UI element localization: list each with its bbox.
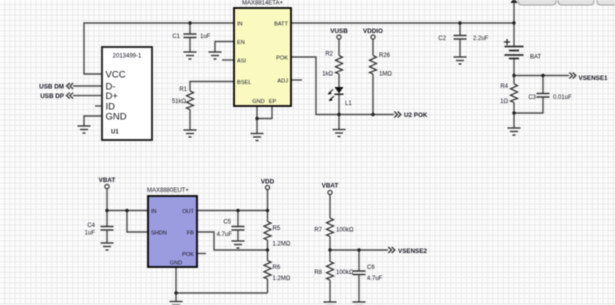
svg-text:U1: U1 [111, 130, 119, 136]
wire battery top [513, 2, 515, 47]
svg-text:C3: C3 [528, 95, 536, 101]
wire R8 leads [329, 250, 331, 262]
ground below C1 [184, 52, 197, 59]
svg-text:C4: C4 [87, 223, 95, 229]
wire U3 POK stub [197, 253, 206, 255]
svg-text:VDD: VDD [261, 179, 275, 186]
wire GND of U1 to ground [84, 116, 102, 126]
svg-text:R26: R26 [379, 53, 391, 59]
junction SHDN branch [125, 209, 128, 212]
wire FB branch [197, 232, 268, 250]
svg-text:R8: R8 [314, 270, 322, 276]
svg-text:1.2MΩ: 1.2MΩ [273, 242, 291, 248]
svg-text:GND: GND [106, 112, 127, 123]
resistor R6 [264, 261, 291, 283]
svg-text:IN: IN [237, 22, 243, 28]
resistor R1 [172, 87, 194, 110]
wire EN to ground [215, 42, 234, 53]
junction C6 tap on VSENSE2 node [357, 248, 360, 251]
wire USB DM to D- [73, 85, 102, 87]
svg-text:EN: EN [237, 40, 245, 46]
wire OUT rail [197, 210, 268, 212]
wire R5 leads [267, 211, 269, 222]
capacitor C2 [438, 36, 488, 43]
junction LED bottom on POK net [337, 113, 340, 116]
wire VBAT to U3 IN [107, 189, 148, 211]
svg-text:1uF: 1uF [200, 34, 211, 40]
wire LED node to ground [338, 115, 340, 130]
svg-text:2.2uF: 2.2uF [473, 36, 489, 42]
svg-text:R7: R7 [314, 228, 322, 234]
junction U3 GND net [174, 291, 177, 294]
svg-text:R4: R4 [500, 84, 508, 90]
regulator U3 MAX8880EUT+ [147, 188, 197, 267]
svg-text:100kΩ: 100kΩ [336, 270, 354, 276]
wire SHDN branch [127, 211, 148, 233]
node U2 POK off-page arrow [394, 112, 428, 120]
resistor R26 [370, 53, 393, 78]
power flag VBAT (regulator input) [99, 177, 116, 189]
resistor R5 [264, 222, 291, 248]
svg-text:VSENSE2: VSENSE2 [398, 248, 428, 255]
junction VSENSE2 node R7/R8 [328, 248, 331, 251]
junction C2 tap on BATT rail [458, 21, 461, 24]
resistor R8 [314, 262, 354, 281]
svg-text:SHDN: SHDN [151, 231, 167, 237]
wire C4 leads [106, 211, 108, 227]
svg-text:1.2MΩ: 1.2MΩ [273, 276, 291, 282]
wire R2 to LED [338, 74, 340, 87]
svg-text:L1: L1 [345, 101, 352, 107]
svg-text:MAX8814ETA+: MAX8814ETA+ [242, 1, 284, 7]
svg-text:USB DM: USB DM [39, 84, 64, 91]
svg-text:C2: C2 [438, 36, 446, 42]
ground below C6 [353, 302, 366, 305]
svg-text:1uF: 1uF [85, 231, 96, 237]
resistor R7 [314, 218, 354, 237]
wire R6 leads [267, 250, 269, 261]
junction FB node R5/R6 [266, 248, 269, 251]
svg-text:ASI: ASI [237, 59, 246, 65]
junction VSENSE1 node at battery [512, 74, 515, 77]
ground below LED L1 [333, 130, 346, 137]
ground below R8 [324, 302, 337, 305]
svg-text:C6: C6 [367, 265, 375, 271]
op-amp / charger IC U2 MAX8814ETA+ [234, 1, 291, 107]
USB DM off-page connector [39, 83, 73, 91]
wire R26 to POK net [372, 74, 374, 115]
svg-text:POK: POK [276, 56, 288, 62]
wire battery bottom to VSENSE1 node [514, 59, 569, 76]
svg-text:4.7uF: 4.7uF [217, 232, 233, 238]
wire R4 leads [513, 76, 515, 85]
svg-text:MAX8880EUT+: MAX8880EUT+ [147, 188, 189, 194]
svg-text:VUSB: VUSB [330, 28, 348, 35]
UI tab button 3 [597, 0, 615, 5]
resistor R2 [322, 52, 342, 78]
svg-text:4.7uF: 4.7uF [367, 276, 383, 282]
node VSENSE1 off-page arrow [569, 73, 608, 83]
ground below C2 [454, 57, 467, 64]
wire USB DP to D+ [73, 95, 102, 97]
junction VDD on OUT rail [266, 209, 269, 212]
wire VCC to top rail [84, 23, 234, 74]
svg-text:51kΩ: 51kΩ [172, 99, 187, 105]
capacitor C5 [217, 220, 245, 239]
junction C3 tap on VSENSE1 node [541, 74, 544, 77]
UI tab button 1 (top right, cut off) [518, 0, 556, 5]
junction U2 GND/EP [255, 117, 258, 120]
ground below C4 [101, 243, 114, 250]
svg-text:ADJ: ADJ [277, 79, 288, 85]
wire R7 to VSENSE2 node [330, 237, 388, 251]
svg-text:VCC: VCC [106, 70, 126, 81]
wire C2 leads [459, 23, 461, 36]
wire ASI stub [222, 59, 234, 61]
svg-text:R5: R5 [273, 226, 281, 232]
wire C1 leads [189, 23, 191, 34]
connector U1 (2013499-1) [102, 47, 152, 140]
capacitor C3 [528, 94, 572, 102]
svg-text:1kΩ: 1kΩ [322, 72, 333, 78]
svg-text:1MΩ: 1MΩ [379, 72, 392, 78]
junction battery top on BATT rail [512, 21, 515, 24]
ground below R4/C3 [508, 128, 521, 135]
svg-text:C1: C1 [172, 34, 180, 40]
capacitor C6 [353, 265, 383, 282]
svg-text:C5: C5 [223, 220, 231, 226]
svg-text:U2 POK: U2 POK [404, 112, 428, 119]
ground below U2 GND/EP [251, 134, 264, 141]
wire C3 leads [542, 76, 544, 94]
capacitor C1 [172, 34, 210, 40]
svg-text:2013499-1: 2013499-1 [113, 54, 142, 60]
svg-text:EP: EP [269, 99, 277, 105]
wire C6 leads [358, 250, 360, 271]
ground below C5 [232, 241, 245, 248]
svg-text:BSEL: BSEL [237, 80, 251, 86]
ground below U3 GND [170, 302, 183, 305]
svg-text:R2: R2 [325, 52, 333, 58]
power flag VDDIO [363, 28, 383, 39]
wire LED to POK net [338, 95, 340, 115]
battery BAT [504, 39, 524, 59]
svg-text:VBAT: VBAT [322, 183, 339, 190]
svg-text:VBAT: VBAT [99, 177, 116, 184]
junction R26 bottom on POK net [371, 113, 374, 116]
svg-text:1Ω: 1Ω [500, 99, 508, 105]
wire VDDIO to R26 [372, 39, 374, 55]
svg-text:BATT: BATT [274, 22, 288, 28]
wire ADJ stub [291, 79, 302, 81]
svg-text:POK: POK [182, 252, 194, 258]
junction C1 tap on input rail [188, 21, 191, 24]
svg-text:GND: GND [170, 261, 182, 267]
svg-text:D+: D+ [106, 91, 119, 102]
power flag VDD [261, 179, 275, 190]
svg-text:GND: GND [252, 99, 264, 105]
svg-text:VSENSE1: VSENSE1 [579, 75, 609, 82]
svg-text:100kΩ: 100kΩ [336, 228, 354, 234]
svg-text:USB DP: USB DP [40, 93, 64, 100]
wire U2 GND pin down [256, 106, 258, 134]
wire VUSB to R2 [338, 39, 340, 55]
wire BATT rail to battery [291, 22, 514, 24]
UI tab button 2 [558, 0, 594, 5]
svg-text:IN: IN [151, 209, 157, 215]
node VSENSE2 off-page arrow [388, 247, 427, 255]
power flag VUSB [330, 28, 348, 39]
junction VBAT/C4 [105, 209, 108, 212]
wire VBAT2 to R7 [329, 195, 331, 218]
svg-text:VDDIO: VDDIO [363, 28, 383, 35]
wire U3 GND down and across to R6 [175, 267, 177, 302]
wire BSEL to R1 [190, 82, 234, 92]
svg-text:BAT: BAT [530, 55, 542, 61]
svg-text:R6: R6 [273, 265, 281, 271]
LED L1 [328, 87, 353, 107]
junction C5 tap on OUT rail [236, 209, 239, 212]
svg-text:0.01uF: 0.01uF [553, 95, 572, 101]
svg-text:R1: R1 [179, 87, 187, 93]
ground below EN [209, 52, 222, 59]
power flag VBAT (sense divider) [322, 183, 339, 195]
USB DP off-page connector [40, 93, 73, 101]
junction R4/C3 bottom [512, 111, 515, 114]
wire VDD flag down [267, 190, 269, 211]
resistor R4 [500, 84, 517, 105]
off-page arrow up (top of battery net, cut off) [511, 0, 518, 3]
wire C5 leads [237, 211, 239, 227]
wire R1 to ground [189, 110, 191, 131]
ground below U1 GND [78, 126, 91, 133]
svg-text:FB: FB [187, 231, 194, 237]
wire ID stub [95, 105, 102, 107]
wire POK to LED net [291, 57, 394, 115]
capacitor C4 [85, 223, 114, 237]
wire U2 EP pin to GND net [257, 106, 272, 119]
svg-text:OUT: OUT [182, 209, 194, 215]
ground below R1 [184, 130, 197, 137]
